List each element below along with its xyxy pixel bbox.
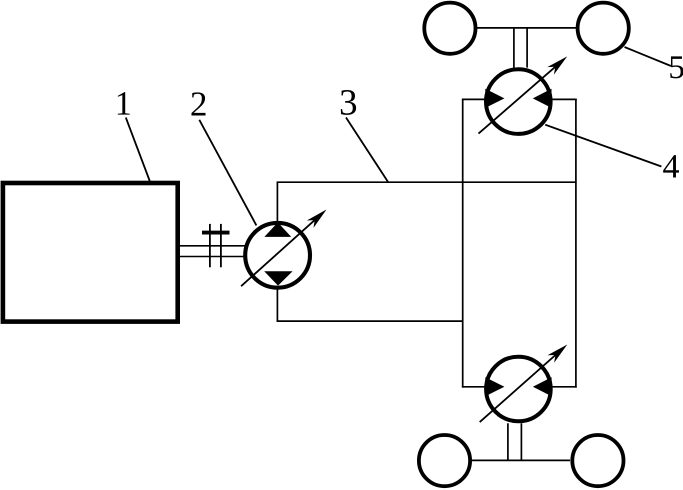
label 4	[663, 155, 679, 177]
pump variable displacement arrow	[241, 210, 326, 287]
motor 4 bottom right port line	[551, 386, 577, 388]
motor 4 top variable arrow	[479, 56, 568, 133]
drive shaft double line	[178, 246, 246, 257]
pump bottom triangle	[264, 271, 292, 285]
bottom wheel shaft double line	[508, 423, 522, 460]
top axle	[477, 27, 577, 29]
label 3	[341, 90, 356, 115]
top wheel shaft double line	[514, 28, 527, 68]
label 1	[118, 92, 130, 114]
motor 4 bottom left port line	[462, 386, 486, 388]
top right wheel 5	[578, 3, 629, 54]
motor 4 top left port line	[462, 98, 486, 100]
leader line 3	[346, 118, 388, 183]
pump discharge line	[276, 289, 278, 322]
coupling	[202, 224, 230, 267]
motor 4 bottom left triangle	[485, 377, 504, 396]
motor 4 bottom variable arrow	[480, 345, 568, 423]
motor 4 bottom circle	[486, 357, 551, 422]
top pipe 3	[277, 181, 577, 183]
pump top triangle	[264, 222, 291, 237]
right pipe	[575, 99, 577, 388]
motor 4 top circle	[486, 69, 551, 134]
motor 4 top right port line	[551, 98, 577, 100]
pump U2 circle	[245, 223, 310, 288]
engine block 1	[3, 183, 178, 322]
top left wheel 5	[424, 3, 475, 54]
leader line 1	[126, 118, 151, 184]
leader line 5	[625, 47, 672, 66]
label 2	[191, 92, 205, 115]
label 5	[670, 56, 683, 78]
left pipe	[462, 99, 464, 388]
bottom right wheel 5	[572, 435, 623, 486]
motor 4 top right triangle	[533, 89, 552, 108]
pump suction line	[276, 182, 278, 222]
leader line 2	[199, 120, 256, 226]
bottom pipe	[277, 320, 464, 322]
motor 4 top left triangle	[485, 89, 504, 108]
bottom left wheel 5	[419, 435, 470, 486]
leader line 4	[545, 125, 661, 167]
bottom axle	[472, 459, 570, 461]
motor 4 bottom right triangle	[533, 377, 552, 396]
